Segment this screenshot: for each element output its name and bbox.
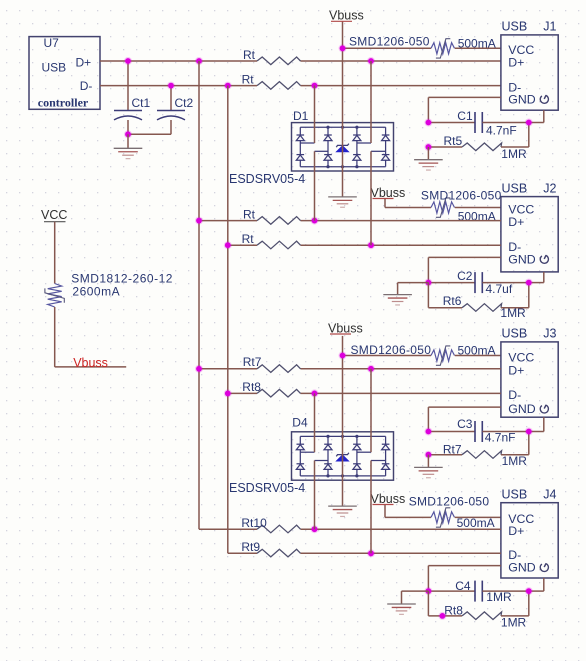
USB connector J1 <box>501 20 558 111</box>
svg-text:USB: USB <box>502 488 528 502</box>
wire row Rt y=245.2 <box>228 244 501 246</box>
svg-text:D1: D1 <box>293 109 309 123</box>
resistor Rt (J1 D+ row) <box>243 48 301 65</box>
svg-text:D+: D+ <box>76 55 92 69</box>
wire D4 right vertical lower <box>370 461 372 554</box>
svg-text:Rt8: Rt8 <box>242 380 261 394</box>
wire GND pin (J3) <box>428 407 501 431</box>
svg-text:D+: D+ <box>508 215 524 229</box>
power port Vbuss (J4) <box>371 492 406 518</box>
D1 diode column 1 <box>296 127 304 167</box>
svg-text:ESDSRV05-4: ESDSRV05-4 <box>229 172 305 186</box>
resistor Rt7 <box>243 355 301 372</box>
ground (below J1 RC) <box>414 147 443 170</box>
wire D- bus vertical <box>227 86 229 554</box>
wire row Rt9 y=553.3 <box>228 552 501 554</box>
wire box bottom to C row (J3) <box>529 417 544 431</box>
node junction dots top rows <box>124 57 132 65</box>
svg-text:D-: D- <box>80 79 93 93</box>
svg-text:Rt10: Rt10 <box>241 516 267 530</box>
svg-text:U7: U7 <box>44 36 60 50</box>
resistor Rt6 (J2) <box>428 283 528 321</box>
svg-text:500mA: 500mA <box>458 344 496 358</box>
node dots C/R rows (J3) <box>424 428 432 436</box>
wire box bottom to C row (J4) <box>529 578 544 591</box>
svg-text:GND: GND <box>508 402 535 416</box>
svg-text:GND: GND <box>508 92 535 106</box>
svg-text:4.7nF: 4.7nF <box>485 430 516 444</box>
capacitor Ct2 <box>128 86 194 135</box>
svg-text:C4: C4 <box>455 579 471 593</box>
svg-text:Rt9: Rt9 <box>241 540 260 554</box>
D1 zener diode (center) <box>336 144 349 152</box>
D4 diode column 4 <box>382 436 390 476</box>
svg-text:ESDSRV05-4: ESDSRV05-4 <box>229 481 305 495</box>
svg-text:D+: D+ <box>508 56 524 70</box>
resistor Rt8 <box>242 380 300 397</box>
USB connector J2 <box>501 181 558 272</box>
svg-text:USB: USB <box>502 20 528 34</box>
svg-text:Rt7: Rt7 <box>243 355 262 369</box>
svg-text:controller: controller <box>38 96 89 110</box>
resistor Rt <box>242 232 301 249</box>
svg-text:VCC: VCC <box>508 350 534 364</box>
svg-text:1MR: 1MR <box>486 590 512 604</box>
wire GND pin (J2) <box>428 257 501 282</box>
wire D4 center vertical / ground <box>342 356 344 507</box>
resistor Rt <box>243 207 301 224</box>
svg-text:J3: J3 <box>543 327 556 341</box>
svg-text:USB: USB <box>502 327 528 341</box>
svg-text:Rt7: Rt7 <box>443 442 462 456</box>
svg-text:J4: J4 <box>543 488 556 502</box>
node dots C/R rows (J2) <box>424 279 432 287</box>
svg-text:500mA: 500mA <box>457 516 495 530</box>
node Ct1/Ct2 junction <box>124 130 132 138</box>
ground (below D1) <box>328 196 357 198</box>
fuse SMD1206-050 (J1) <box>343 34 501 58</box>
svg-text:C1: C1 <box>457 109 473 123</box>
ground (below J3 RC) <box>414 455 443 478</box>
svg-text:Vbuss: Vbuss <box>371 492 406 506</box>
fuse F1 SMD1812-260-12 <box>45 272 173 307</box>
fuse SMD1206-050 (J2) <box>385 189 502 224</box>
svg-text:GND: GND <box>508 252 535 266</box>
svg-text:J1: J1 <box>543 20 556 34</box>
svg-text:Rt5: Rt5 <box>444 134 463 148</box>
svg-text:D+: D+ <box>508 524 524 538</box>
svg-text:SMD1206-050: SMD1206-050 <box>421 189 502 203</box>
svg-text:USB: USB <box>502 181 528 195</box>
svg-text:VCC: VCC <box>41 208 67 222</box>
svg-text:Vbuss: Vbuss <box>328 321 363 335</box>
resistor Rt10 <box>241 516 300 533</box>
svg-text:1MR: 1MR <box>500 306 526 320</box>
node dots row Rt <box>224 241 232 249</box>
svg-text:GND: GND <box>508 561 535 575</box>
resistor Rt8 (J4) <box>428 591 528 629</box>
svg-text:SMD1206-050: SMD1206-050 <box>409 494 490 508</box>
wire row Rt7 y=368.8 <box>199 368 501 370</box>
svg-text:2600mA: 2600mA <box>72 284 120 298</box>
svg-text:Rt8: Rt8 <box>444 604 463 618</box>
wire row Rt10 y=529.2 <box>199 528 501 530</box>
wire D1 right vertical upper <box>370 61 372 143</box>
wire GND pin (J1) <box>428 97 501 122</box>
svg-text:Vbuss: Vbuss <box>73 356 108 370</box>
D4 diode column 2 <box>324 436 332 476</box>
wire D+ bus vertical <box>198 61 200 529</box>
wire row Rt y=220.6 <box>199 220 501 222</box>
ground (left of J4 RC) <box>387 591 428 616</box>
svg-text:1MR: 1MR <box>501 147 527 161</box>
node dots C/R rows (J1) <box>424 119 432 127</box>
wire U7 D- to J1 <box>100 85 501 87</box>
wire box bottom to C row (J2) <box>529 272 544 283</box>
wire GND pin (J4) <box>428 566 501 592</box>
power port Vbuss (J1) <box>329 9 364 23</box>
fuse SMD1206-050 (J4) <box>385 494 501 529</box>
svg-text:C3: C3 <box>457 417 473 431</box>
svg-text:D-: D- <box>508 388 521 402</box>
capacitor C4 (J4) <box>428 579 528 604</box>
wire row Rt8 y=393.4 <box>228 392 501 394</box>
D1 diode column 4 <box>382 127 390 167</box>
wire D1 left vertical lower <box>314 151 316 220</box>
svg-text:VCC: VCC <box>508 202 534 216</box>
svg-text:Ct1: Ct1 <box>132 96 151 110</box>
D4 diode column 3 <box>353 436 361 476</box>
wire D1 left vertical upper <box>314 86 316 143</box>
svg-text:Rt: Rt <box>243 207 256 221</box>
D4 internal rails <box>300 435 385 478</box>
svg-text:1MR: 1MR <box>501 615 527 629</box>
node dots row Rt <box>195 217 203 225</box>
svg-text:Rt: Rt <box>242 72 255 86</box>
op-amp U7 USB controller box <box>29 36 100 110</box>
D1 internal rails <box>300 126 385 169</box>
D4 channel step wires <box>300 452 385 460</box>
power port VCC <box>41 208 67 283</box>
wire D4 left vertical lower <box>314 461 316 530</box>
node Vbuss-fuse junction (D1 column) <box>339 44 347 52</box>
resistor Rt7 (J3) <box>428 432 528 469</box>
node dots row Rt9 <box>367 549 375 557</box>
D1 channel step wires <box>300 143 385 151</box>
svg-text:Rt6: Rt6 <box>443 294 462 308</box>
USB connector J3 <box>501 327 558 418</box>
svg-text:SMD1206-050: SMD1206-050 <box>349 34 430 48</box>
resistor Rt5 (J1) <box>428 123 528 162</box>
svg-text:Rt: Rt <box>243 48 256 62</box>
ground (below D4) <box>328 505 357 507</box>
wire D4 right vertical upper <box>370 369 372 452</box>
svg-text:1MR: 1MR <box>502 454 528 468</box>
ground (below Ct1) <box>114 134 143 158</box>
capacitor Ct1 <box>114 61 151 134</box>
node dots row Rt10 <box>311 525 319 533</box>
svg-text:500mA: 500mA <box>458 36 496 50</box>
wire fuse to Vbuss label <box>55 307 127 367</box>
power port Vbuss (J3) <box>328 321 363 335</box>
wire D1 center vertical / ground <box>342 48 344 197</box>
power port Vbuss (J3) stub wire <box>342 336 344 356</box>
svg-text:D4: D4 <box>292 415 308 429</box>
D1 diode column 3 <box>353 127 361 167</box>
svg-text:SMD1206-050: SMD1206-050 <box>351 343 432 357</box>
ground (left of J2 RC) <box>383 283 428 308</box>
svg-text:Vbuss: Vbuss <box>371 186 406 200</box>
power port Vbuss (J2) <box>371 186 406 208</box>
D4 diode column 1 <box>296 436 304 476</box>
capacitor C1 (J1) <box>428 109 528 137</box>
power port Vbuss (J1) stub wire <box>342 21 344 48</box>
svg-text:Vbuss: Vbuss <box>329 9 364 23</box>
wire box bottom to C row (J1) <box>529 110 544 122</box>
capacitor C3 (J3) <box>428 417 528 444</box>
D4 zener diode (center) <box>336 453 349 461</box>
svg-text:Rt: Rt <box>242 232 255 246</box>
svg-text:C2: C2 <box>457 269 473 283</box>
capacitor C2 (J2) <box>428 269 528 296</box>
wire U7 D+ to J1 <box>100 60 501 62</box>
wire D1 right vertical lower <box>370 151 372 245</box>
fuse SMD1206-050 (J3) <box>343 343 501 365</box>
D1 diode column 2 <box>324 127 332 167</box>
svg-text:4.7uf: 4.7uf <box>486 282 513 296</box>
svg-text:J2: J2 <box>543 181 556 195</box>
resistor Rt (J1 D- row) <box>242 72 301 89</box>
node dots C/R rows (J4) <box>424 587 432 595</box>
svg-text:D+: D+ <box>508 363 524 377</box>
resistor Rt9 <box>241 540 300 557</box>
svg-text:4.7nF: 4.7nF <box>486 124 517 138</box>
node Vbuss-fuse junction (D4 column) <box>339 352 347 360</box>
diode array D1 ESDSRV05-4 box <box>229 109 394 186</box>
diode array D4 ESDSRV05-4 box <box>229 415 394 495</box>
wire D4 left vertical upper <box>314 393 316 452</box>
node dots row Rt7 <box>195 365 203 373</box>
node dots row Rt8 <box>224 389 232 397</box>
svg-text:Ct2: Ct2 <box>175 96 194 110</box>
USB connector J4 <box>501 488 558 579</box>
svg-text:USB: USB <box>42 61 67 75</box>
